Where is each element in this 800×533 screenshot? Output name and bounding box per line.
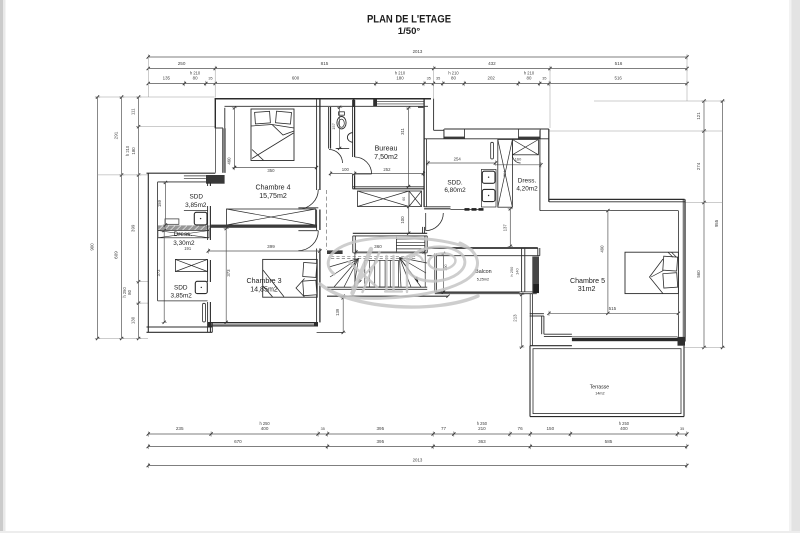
svg-text:609: 609 xyxy=(113,251,118,259)
svg-text:h 250: h 250 xyxy=(619,421,630,426)
svg-text:4,20m2: 4,20m2 xyxy=(516,185,538,192)
svg-text:h 210: h 210 xyxy=(190,71,201,76)
svg-text:35: 35 xyxy=(427,77,431,81)
svg-text:SDD: SDD xyxy=(174,285,188,292)
svg-text:191: 191 xyxy=(184,246,192,251)
svg-text:SDD.: SDD. xyxy=(447,179,462,186)
svg-text:h 250: h 250 xyxy=(122,287,127,298)
svg-text:235: 235 xyxy=(176,426,184,431)
svg-text:35: 35 xyxy=(321,427,325,431)
svg-text:35: 35 xyxy=(208,77,212,81)
svg-text:h 250: h 250 xyxy=(259,421,270,426)
svg-text:516: 516 xyxy=(615,61,623,66)
svg-text:80: 80 xyxy=(127,289,132,294)
svg-text:585: 585 xyxy=(605,439,613,444)
svg-text:14,85m2: 14,85m2 xyxy=(250,286,278,294)
svg-text:395: 395 xyxy=(376,426,384,431)
svg-text:210: 210 xyxy=(478,426,486,431)
svg-text:202: 202 xyxy=(488,76,496,81)
svg-text:3,85m2: 3,85m2 xyxy=(171,293,193,300)
svg-text:Terrasse: Terrasse xyxy=(590,384,609,390)
svg-text:60: 60 xyxy=(402,197,406,201)
svg-text:121: 121 xyxy=(696,112,701,120)
svg-text:Chambre 3: Chambre 3 xyxy=(246,277,281,285)
svg-text:1/50°: 1/50° xyxy=(398,26,421,37)
svg-text:76: 76 xyxy=(518,426,524,431)
svg-text:31m2: 31m2 xyxy=(578,285,596,293)
svg-text:274: 274 xyxy=(696,162,701,170)
svg-text:80: 80 xyxy=(193,76,198,81)
svg-text:395: 395 xyxy=(376,439,384,444)
svg-text:670: 670 xyxy=(234,439,242,444)
svg-text:Bureau: Bureau xyxy=(375,144,398,152)
svg-text:h 210: h 210 xyxy=(524,71,535,76)
svg-text:490: 490 xyxy=(600,245,605,253)
svg-text:516: 516 xyxy=(615,76,623,81)
svg-text:SDD: SDD xyxy=(190,193,204,200)
svg-text:35: 35 xyxy=(680,427,684,431)
svg-text:130: 130 xyxy=(130,316,135,324)
svg-text:460: 460 xyxy=(226,157,231,165)
svg-text:2013: 2013 xyxy=(413,457,423,462)
svg-text:400: 400 xyxy=(261,426,269,431)
svg-text:291: 291 xyxy=(113,131,118,139)
svg-text:h 210: h 210 xyxy=(395,71,406,76)
svg-text:399: 399 xyxy=(130,224,135,232)
svg-text:3,85m2: 3,85m2 xyxy=(185,202,207,209)
svg-text:560: 560 xyxy=(696,270,701,278)
svg-text:Chambre 5: Chambre 5 xyxy=(570,277,605,285)
svg-text:14m2: 14m2 xyxy=(595,392,604,396)
svg-text:80: 80 xyxy=(527,76,532,81)
svg-text:399: 399 xyxy=(267,244,275,249)
svg-text:35: 35 xyxy=(542,77,546,81)
svg-text:180: 180 xyxy=(131,147,136,155)
svg-text:77: 77 xyxy=(441,426,447,431)
svg-text:150: 150 xyxy=(546,426,554,431)
svg-text:252: 252 xyxy=(383,167,391,172)
svg-text:111: 111 xyxy=(130,108,135,115)
svg-text:157: 157 xyxy=(331,123,336,130)
svg-text:360: 360 xyxy=(374,244,382,249)
svg-text:h 250: h 250 xyxy=(509,266,514,277)
svg-text:Chambre 4: Chambre 4 xyxy=(255,183,290,191)
svg-text:363: 363 xyxy=(478,439,486,444)
svg-text:6,80m2: 6,80m2 xyxy=(444,187,466,194)
svg-text:311: 311 xyxy=(400,127,405,134)
svg-text:900: 900 xyxy=(90,243,95,251)
svg-text:600: 600 xyxy=(292,76,300,81)
svg-text:h 210: h 210 xyxy=(125,145,130,156)
svg-text:Dress.: Dress. xyxy=(174,231,193,238)
svg-text:254: 254 xyxy=(454,156,462,161)
svg-text:80: 80 xyxy=(451,76,456,81)
svg-text:515: 515 xyxy=(609,306,617,311)
svg-text:100: 100 xyxy=(342,167,350,172)
svg-text:h 210: h 210 xyxy=(448,71,459,76)
svg-text:373: 373 xyxy=(156,269,161,277)
svg-text:250: 250 xyxy=(178,61,186,66)
svg-text:139: 139 xyxy=(335,308,340,316)
svg-text:180: 180 xyxy=(396,76,404,81)
svg-text:815: 815 xyxy=(321,61,329,66)
svg-text:PLAN DE L'ETAGE: PLAN DE L'ETAGE xyxy=(367,14,451,26)
svg-text:140: 140 xyxy=(515,268,520,275)
svg-text:350: 350 xyxy=(267,168,275,173)
svg-text:159: 159 xyxy=(157,199,162,207)
svg-text:373: 373 xyxy=(226,269,231,277)
svg-text:955: 955 xyxy=(714,219,719,227)
svg-text:135: 135 xyxy=(163,76,171,81)
svg-text:5,25m2: 5,25m2 xyxy=(477,278,489,282)
svg-text:7,50m2: 7,50m2 xyxy=(374,153,398,161)
svg-text:h 250: h 250 xyxy=(477,421,488,426)
svg-text:432: 432 xyxy=(488,61,496,66)
svg-text:35: 35 xyxy=(436,77,440,81)
svg-text:100: 100 xyxy=(400,216,405,224)
svg-text:400: 400 xyxy=(620,426,628,431)
svg-text:2013: 2013 xyxy=(413,49,423,54)
svg-text:137: 137 xyxy=(503,224,508,232)
svg-text:Dress.: Dress. xyxy=(518,177,537,184)
svg-text:264: 264 xyxy=(503,171,507,177)
svg-text:213: 213 xyxy=(513,314,518,322)
svg-text:Balcon: Balcon xyxy=(475,269,491,275)
svg-text:15,75m2: 15,75m2 xyxy=(259,192,287,200)
svg-text:160: 160 xyxy=(515,156,522,161)
